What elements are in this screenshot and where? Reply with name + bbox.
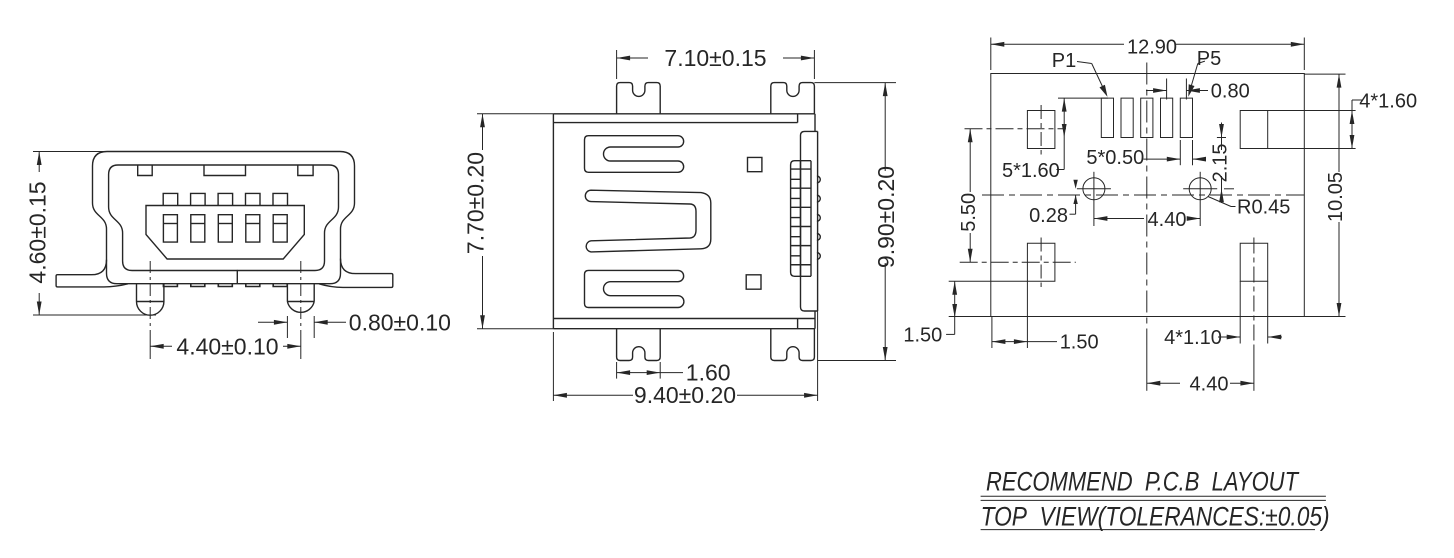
top view: body bottom edge: [553, 328, 815, 330]
top view: lower spring latch slot: [585, 270, 684, 307]
pcb pad top-left center marks: [965, 128, 1067, 130]
svg-text:0.28: 0.28: [1029, 205, 1068, 227]
dimension 1.60 extension lines: [616, 362, 618, 379]
dimension 2.15 lines: [1221, 123, 1223, 151]
svg-text:7.10±0.15: 7.10±0.15: [664, 45, 766, 71]
pcb pad top-left: [1027, 111, 1055, 149]
pcb hole right crosshair: [1183, 188, 1217, 190]
svg-text:4*1.10: 4*1.10: [1164, 327, 1222, 349]
front view: outer metal shell outline: [93, 152, 355, 284]
dimension 10.05 line: [1338, 74, 1340, 172]
pcb vertical center line: [1146, 63, 1148, 346]
dimension 0.80 lines: [1146, 90, 1167, 92]
dimension 10.05 arrows: [1337, 74, 1342, 88]
front view: inner shell opening: [109, 165, 339, 271]
svg-text:4.40: 4.40: [1190, 374, 1229, 396]
dimension 9.90±0.20 line: [884, 83, 886, 171]
dimension 1.60 arrows: [617, 370, 631, 375]
dimension 4*1.60 leader: [1352, 99, 1363, 101]
svg-text:12.90: 12.90: [1127, 37, 1177, 59]
label R0.45 leader: [1208, 197, 1231, 207]
top view: top-left mounting tab: [617, 83, 661, 114]
dimension 1.50 vertical leader: [954, 318, 956, 335]
dimension 0.28 leader: [1075, 195, 1077, 214]
top view: small square hole lower: [746, 275, 761, 289]
dimension 7.70±0.20 line: [482, 114, 484, 150]
pcb hole left crosshair: [1077, 188, 1111, 190]
front view: left locating peg: [137, 284, 164, 316]
dimension 4.40±0.10 arrows: [150, 344, 164, 349]
svg-text:4.40: 4.40: [1148, 209, 1187, 231]
top view: bottom-left mounting tab: [617, 329, 661, 361]
dimension 1.50 vertical arrows: [952, 281, 957, 295]
dimension 7.10±0.15 arrows: [617, 56, 631, 61]
front view: top notch center: [204, 165, 246, 176]
dimension 12.90 line: [991, 43, 1124, 45]
dimension 7.10±0.15 extension lines: [616, 50, 618, 79]
dimension 0.28 arrows: [1073, 180, 1077, 189]
front view: 5 contact slots above tongue: [163, 193, 178, 205]
front view: D-shaped tongue housing: [146, 206, 304, 260]
dimension 2.15 extension lines: [1217, 137, 1226, 139]
top view: bottom-right mounting tab: [771, 329, 815, 361]
dimension 4.60±0.15 extension lines: [33, 151, 145, 153]
dimension 2.15 arrows: [1219, 124, 1224, 138]
dimension 0.80 ticks: [1166, 79, 1168, 100]
label P1 leader: [1077, 62, 1092, 64]
svg-text:P1: P1: [1052, 50, 1076, 72]
dimension 1.60 line: [617, 372, 661, 374]
dimension 12.90 arrows: [991, 42, 1005, 47]
svg-text:5*1.60: 5*1.60: [1002, 160, 1060, 182]
svg-text:P5: P5: [1197, 48, 1221, 70]
dimension 0.80 arrows: [1153, 88, 1167, 93]
dimension 9.90±0.20 arrows: [883, 83, 888, 97]
svg-text:9.90±0.20: 9.90±0.20: [873, 166, 899, 268]
dimension 4*1.60 extension lines: [1268, 110, 1356, 112]
dimension 5*1.60 leader: [1057, 169, 1065, 171]
svg-text:5.50: 5.50: [958, 193, 980, 232]
svg-text:10.05: 10.05: [1325, 172, 1347, 222]
dimension 9.40±0.20 line: [553, 394, 633, 396]
dimension 4*1.10 arrows: [1227, 335, 1241, 340]
dimension 1.50 horizontal extensions: [991, 317, 993, 349]
dimension 4*1.10 lines: [1218, 336, 1240, 338]
front view: 5 solder tail stubs under shell: [163, 284, 177, 287]
pcb horizontal center line: [982, 194, 1304, 196]
dimension 4.40 holes arrows: [1094, 216, 1108, 221]
top view: inner bottom fold line: [553, 318, 815, 320]
front view: right mounting flange: [319, 259, 393, 288]
dimension 5.50 line: [969, 129, 971, 192]
dimension 5*1.60 extension line: [1058, 97, 1108, 99]
pcb hole left: [1083, 178, 1105, 200]
svg-text:4.40±0.10: 4.40±0.10: [176, 334, 278, 360]
pcb outline: [991, 74, 1305, 317]
dimension 7.10±0.15 line: [617, 57, 648, 59]
front view: bottom center seam: [236, 270, 238, 284]
svg-text:TOP VIEW(TOLERANCES:±0.05): TOP VIEW(TOLERANCES:±0.05): [981, 501, 1330, 531]
dimension 5*0.50 arrows: [1167, 157, 1181, 162]
svg-text:4.60±0.15: 4.60±0.15: [25, 181, 51, 283]
top view: middle spring slot: [585, 190, 711, 252]
top view: small square hole upper: [748, 157, 762, 171]
svg-text:R0.45: R0.45: [1237, 197, 1290, 219]
dimension 5*0.50 lines: [1144, 158, 1181, 160]
dimension 4.40 bottom line: [1147, 382, 1180, 384]
pcb 5 signal pads P1-P5: [1101, 98, 1113, 137]
front view: top notch right: [298, 165, 313, 176]
top view: inner top fold line: [553, 122, 797, 124]
dimension 4*1.60 arrows: [1350, 111, 1355, 125]
svg-text:0.80±0.10: 0.80±0.10: [349, 310, 451, 336]
front view: left mounting flange: [56, 260, 128, 287]
top view: right edge lower segment: [814, 311, 816, 329]
svg-text:4*1.60: 4*1.60: [1359, 91, 1417, 113]
front view: top notch left: [138, 165, 153, 176]
dimension 5*0.50 extension lines: [1179, 140, 1181, 165]
dimension 4.40 holes line: [1094, 218, 1144, 220]
label P5 leader: [1198, 61, 1205, 63]
front view: left peg center line: [149, 261, 151, 329]
dimension 4.60±0.15 line: [38, 152, 40, 173]
dimension 1.50 vertical extension: [949, 280, 1028, 282]
dimension 5.50 arrows: [968, 129, 973, 143]
svg-text:5*0.50: 5*0.50: [1086, 147, 1144, 169]
dimension 4.40±0.10 line: [150, 345, 172, 347]
dimension 4.40±0.10 extension lines: [149, 330, 151, 359]
dimension 0.80±0.10 arrows: [274, 320, 288, 325]
front view: right locating peg: [287, 284, 314, 313]
dimension 9.40±0.20 arrows: [553, 393, 567, 398]
dimension 9.40±0.20 extension lines: [552, 332, 554, 401]
svg-text:RECOMMEND P.C.B LAYOUT: RECOMMEND P.C.B LAYOUT: [986, 467, 1300, 497]
svg-text:2.15: 2.15: [1210, 143, 1232, 182]
dimension 10.05 extension lines: [1304, 73, 1345, 75]
dimension 9.90±0.20 extension lines: [814, 82, 896, 84]
svg-text:9.40±0.20: 9.40±0.20: [634, 382, 736, 408]
top view: body top edge: [553, 113, 815, 115]
dimension 1.50 horizontal arrows: [992, 339, 1006, 344]
top view: contact support strip: [801, 131, 818, 311]
caption underline double: [981, 495, 1326, 497]
dimension 12.90 extension lines: [990, 38, 992, 71]
dimension 7.70±0.20 arrows: [480, 114, 485, 128]
top view: top-right mounting tab: [771, 83, 815, 114]
pcb pad bottom-right: [1240, 243, 1268, 281]
dimension 1.50 vertical line: [954, 281, 956, 317]
dimension 4*1.10 extensions: [1239, 281, 1241, 343]
dimension 4.40 bottom arrows: [1147, 381, 1161, 386]
pcb pad bottom-left: [1027, 243, 1055, 281]
dimension 1.50 horizontal line: [992, 341, 1028, 343]
dimension 4.60±0.15 arrows: [37, 152, 42, 166]
svg-text:1.50: 1.50: [903, 325, 942, 347]
dimension 7.70±0.20 extension lines: [477, 113, 553, 115]
top view: contact comb ladder: [791, 161, 811, 277]
svg-text:0.80: 0.80: [1211, 81, 1250, 103]
top view: 5 contact bumps: [817, 176, 820, 183]
top view: upper spring latch slot: [585, 136, 684, 173]
front view: 5 contact pins in tongue: [163, 215, 177, 242]
dimension 4*1.60 line: [1351, 111, 1353, 149]
top view: body left edge: [552, 114, 554, 329]
pcb pad bottom-left center marks: [960, 261, 1076, 263]
dimension 0.80±0.10 extension lines: [286, 316, 288, 338]
front view: right peg center line: [300, 261, 302, 329]
pcb hole right: [1189, 178, 1211, 200]
svg-text:7.70±0.20: 7.70±0.20: [463, 152, 489, 254]
caption underline: [981, 529, 1315, 531]
pcb pad top-right: [1240, 111, 1268, 149]
dimension 0.80±0.10 lines: [258, 321, 287, 323]
svg-text:1.50: 1.50: [1060, 332, 1099, 354]
dimension 5*1.60 arrows: [1062, 98, 1067, 112]
pcb pad bottom-right center line: [1253, 238, 1255, 346]
top view: right edge upper segment: [814, 114, 816, 132]
